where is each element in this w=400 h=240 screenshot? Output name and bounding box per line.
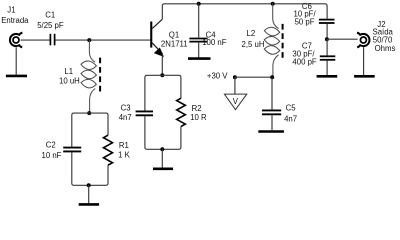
- capacitor C1: [50, 34, 54, 46]
- wire rail to C4: [198, 4, 200, 38]
- wire J2 to ground: [363, 47, 365, 75]
- svg-text:4n7: 4n7: [119, 113, 132, 122]
- voltage source V triangle: [224, 94, 246, 110]
- inductor L1: [81, 58, 100, 92]
- wire C2R1 to ground: [88, 185, 90, 203]
- wire L1 top lead: [89, 40, 95, 62]
- svg-text:C2: C2: [46, 141, 56, 150]
- capacitor C3: [136, 111, 153, 115]
- wire C5 to ground: [271, 115, 273, 130]
- wire L2 top lead: [273, 4, 279, 29]
- svg-text:50 pF: 50 pF: [295, 18, 315, 27]
- svg-text:+30 V: +30 V: [207, 72, 228, 81]
- node L1/C2R1 junction: [87, 111, 91, 115]
- svg-text:2,5 uH: 2,5 uH: [242, 40, 265, 49]
- ground G1 under J1: [6, 75, 27, 78]
- resistor R1: [104, 135, 113, 165]
- svg-text:R1: R1: [119, 141, 129, 150]
- connector J1: [10, 33, 22, 48]
- wire +30V to L2 bottom: [235, 76, 272, 78]
- wire C2R1 box bottom: [72, 152, 108, 185]
- svg-text:Q1: Q1: [169, 30, 179, 39]
- wire C4 to ground: [198, 43, 200, 58]
- node emitter/C3R2 junction: [160, 73, 164, 77]
- resistor R2: [177, 98, 186, 126]
- wire C6 to J2 node: [326, 24, 328, 39]
- ground G6 under J2: [354, 75, 375, 78]
- transistor Q1: [150, 19, 163, 56]
- wire C1 to Q1 base: [55, 39, 150, 41]
- wire junction to J2: [327, 38, 358, 40]
- wire L1 bottom lead: [90, 89, 96, 114]
- wire J1 to C1: [21, 39, 50, 41]
- svg-text:1 K: 1 K: [118, 150, 131, 159]
- wire L2 junction to C5: [271, 77, 273, 109]
- svg-text:C1: C1: [45, 10, 55, 19]
- node rail/L2 junction: [271, 2, 275, 6]
- svg-text:10 uH: 10 uH: [59, 77, 80, 86]
- node C3R2 bottom junction: [160, 147, 164, 151]
- wire J1 to ground: [15, 47, 17, 75]
- svg-text:10 nF: 10 nF: [42, 151, 62, 160]
- wire C3R2 to ground: [161, 149, 163, 167]
- capacitor C7: [320, 56, 336, 60]
- svg-text:Ohms: Ohms: [375, 44, 396, 53]
- wire emitter to C3R2: [161, 54, 163, 76]
- wire junction to C7: [326, 39, 328, 55]
- svg-text:Entrada: Entrada: [1, 16, 29, 25]
- wire C7 to ground: [326, 61, 328, 75]
- svg-text:V: V: [233, 97, 239, 106]
- node base/L1 junction: [87, 38, 91, 42]
- svg-text:4n7: 4n7: [284, 114, 297, 123]
- node rail/C4 junction: [197, 2, 201, 6]
- svg-text:400 pF: 400 pF: [292, 58, 317, 67]
- ground G3 under C2R1: [79, 203, 99, 206]
- wire collector to top rail and rail to C6 column: [162, 4, 327, 19]
- ground G4 under C3R2: [153, 168, 173, 171]
- svg-text:J1: J1: [7, 6, 15, 15]
- svg-text:R2: R2: [192, 104, 202, 113]
- svg-text:5/25 pF: 5/25 pF: [37, 21, 64, 30]
- node C2R1 bottom junction: [87, 183, 91, 187]
- svg-text:L1: L1: [64, 67, 73, 76]
- inductor L2: [264, 24, 282, 58]
- wire +30V to source triangle: [234, 77, 236, 94]
- svg-text:10 R: 10 R: [190, 113, 207, 122]
- capacitor C6: [319, 20, 335, 23]
- svg-text:C3: C3: [121, 103, 131, 112]
- svg-text:L2: L2: [247, 29, 256, 38]
- ground G5 under C7: [317, 75, 338, 78]
- node L2/C5 junction: [270, 75, 274, 79]
- wire L2 bottom lead: [273, 55, 279, 77]
- svg-text:100 nF: 100 nF: [202, 38, 227, 47]
- svg-text:C5: C5: [286, 104, 297, 113]
- ground G7 under C5: [258, 130, 284, 133]
- connector J2: [357, 33, 369, 48]
- wire C2R1 box top-left: [72, 113, 108, 147]
- wire C3R2 box bottom: [145, 116, 181, 149]
- ground G2 under C4: [188, 57, 211, 60]
- node C6/C7/J2 junction: [325, 37, 329, 41]
- capacitor C4: [189, 39, 207, 42]
- capacitor C2: [63, 148, 81, 152]
- svg-text:2N1711: 2N1711: [161, 40, 188, 49]
- capacitor C5: [262, 110, 281, 114]
- node +30V junction: [233, 75, 237, 79]
- wire C3R2 box top: [145, 75, 181, 110]
